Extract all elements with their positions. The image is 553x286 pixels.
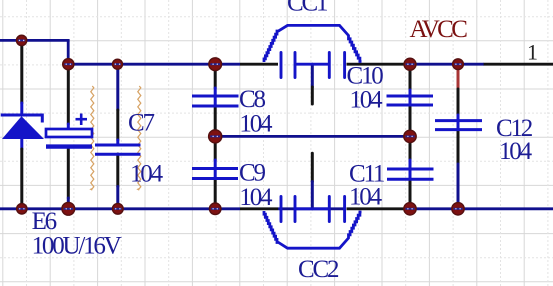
svg-text:100U/16V: 100U/16V xyxy=(32,233,122,260)
svg-text:C8: C8 xyxy=(239,86,265,113)
svg-text:104: 104 xyxy=(350,87,384,114)
svg-text:104: 104 xyxy=(349,184,383,211)
svg-text:104: 104 xyxy=(130,161,164,188)
svg-text:104: 104 xyxy=(239,111,273,138)
svg-text:C10: C10 xyxy=(347,63,384,90)
svg-text:104: 104 xyxy=(499,138,533,165)
svg-text:C9: C9 xyxy=(239,160,265,187)
svg-text:E6: E6 xyxy=(32,208,57,235)
svg-text:CC1: CC1 xyxy=(287,0,327,17)
svg-text:C7: C7 xyxy=(128,109,154,136)
svg-text:1: 1 xyxy=(527,40,538,65)
svg-text:CC2: CC2 xyxy=(298,256,339,283)
svg-text:AVCC: AVCC xyxy=(410,16,468,43)
svg-text:104: 104 xyxy=(239,184,273,211)
